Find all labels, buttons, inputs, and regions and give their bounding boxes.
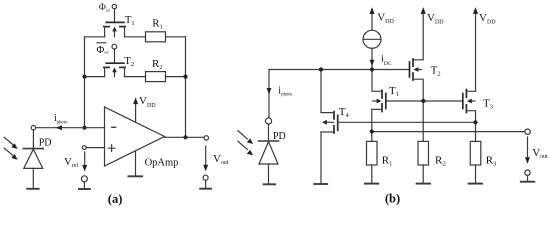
- svg-text:T4: T4: [339, 106, 350, 119]
- svg-text:(a): (a): [108, 192, 123, 206]
- svg-text:VDD: VDD: [479, 12, 496, 26]
- svg-text:T1: T1: [389, 85, 399, 98]
- svg-text:VDD: VDD: [427, 12, 444, 26]
- svg-text:Vref: Vref: [64, 156, 78, 169]
- svg-text:OpAmp: OpAmp: [145, 158, 179, 169]
- svg-text:Φsel: Φsel: [96, 44, 108, 56]
- svg-text:photo: photo: [281, 93, 293, 98]
- svg-text:Φsel: Φsel: [99, 2, 110, 13]
- svg-text:VDD: VDD: [139, 95, 156, 109]
- svg-text:Vout: Vout: [532, 147, 548, 160]
- svg-text:T3: T3: [483, 98, 493, 111]
- svg-text:R2: R2: [152, 58, 163, 71]
- svg-text:T2: T2: [431, 65, 441, 78]
- svg-text:R3: R3: [486, 154, 497, 167]
- svg-text:photo: photo: [57, 120, 69, 125]
- svg-text:T1: T1: [125, 14, 135, 27]
- svg-text:T2: T2: [124, 55, 134, 68]
- svg-text:DC: DC: [384, 61, 392, 67]
- svg-text:R1: R1: [382, 154, 393, 167]
- svg-text:VDD: VDD: [377, 11, 394, 25]
- svg-text:R2: R2: [435, 154, 446, 167]
- svg-text:PD: PD: [39, 137, 52, 148]
- svg-text:R1: R1: [152, 18, 163, 31]
- svg-text:(b): (b): [385, 192, 400, 206]
- svg-text:PD: PD: [273, 131, 286, 142]
- svg-text:Vout: Vout: [213, 153, 229, 166]
